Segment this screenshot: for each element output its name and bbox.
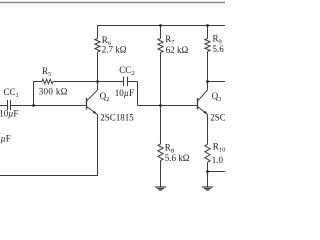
ground under R8 bbox=[155, 186, 166, 188]
ground under R10 bbox=[202, 186, 213, 188]
wire riser base node to R5 bbox=[33, 82, 35, 106]
wire bottom emitter return line bbox=[0, 175, 98, 177]
svg-text:300 kΩ: 300 kΩ bbox=[39, 87, 68, 97]
wire CC2 drop bbox=[137, 82, 139, 106]
svg-text:10µF: 10µF bbox=[0, 108, 18, 118]
junction node Q3 base bbox=[159, 104, 162, 107]
resistor R8 zigzag bbox=[158, 144, 163, 161]
svg-text:2SC1815: 2SC1815 bbox=[100, 113, 134, 123]
svg-text:62 kΩ: 62 kΩ bbox=[166, 45, 189, 55]
wire R10 bottom to ground bbox=[207, 162, 209, 187]
wire CC2 to Q3 base node bbox=[138, 105, 161, 107]
wire Q3 emitter diagonal bbox=[198, 107, 208, 115]
wire CC2 right lead bbox=[128, 81, 138, 83]
transistor Q2 base bar bbox=[86, 98, 88, 110]
wire R7 bottom to R8 top bbox=[160, 53, 162, 145]
wire Q2 collector diagonal bbox=[87, 90, 98, 101]
junction node R10 bottom bbox=[206, 170, 209, 173]
wire R8 bottom to ground bbox=[160, 161, 162, 188]
resistor R5 zigzag bbox=[42, 79, 53, 84]
wire Q3 collector diagonal bbox=[198, 90, 208, 101]
wire R6 bottom to Q2 collector node bbox=[97, 52, 99, 90]
wire R9 bottom to Q3 collector bbox=[207, 52, 209, 91]
wire Q2 emitter down bbox=[97, 115, 99, 176]
resistor R10 zigzag bbox=[205, 144, 210, 162]
junction node Q2 collector bbox=[96, 80, 99, 83]
arrow Q3 emitter bbox=[204, 111, 208, 114]
svg-text:10µF: 10µF bbox=[115, 88, 134, 98]
resistor R9 zigzag bbox=[205, 39, 210, 52]
svg-text:1.0 kΩ: 1.0 kΩ bbox=[212, 155, 225, 165]
arrow Q2 emitter bbox=[93, 111, 97, 114]
wire input left segment bbox=[0, 105, 8, 107]
wire Q3 emitter down to R10 bbox=[207, 115, 209, 145]
wire rail to R6 bbox=[97, 25, 99, 39]
junction node CC1-R5-base bbox=[32, 104, 35, 107]
wire output from Q3 collector node bbox=[208, 81, 226, 83]
wire Q3 base lead bbox=[161, 105, 198, 107]
junction node Q3 collector bbox=[206, 80, 209, 83]
transistor Q3 base bar bbox=[197, 98, 199, 110]
svg-text:µF: µF bbox=[1, 134, 11, 144]
svg-text:5.6 kΩ: 5.6 kΩ bbox=[213, 44, 226, 54]
wire VCC rail bbox=[98, 25, 226, 27]
wire collector node to CC2 bbox=[98, 81, 124, 83]
capacitor CC2 plates bbox=[123, 77, 125, 87]
svg-text:2SC1815: 2SC1815 bbox=[210, 113, 225, 123]
wire R5 left lead bbox=[33, 81, 42, 83]
capacitor CC1 plates bbox=[7, 100, 9, 110]
wire Q2 emitter diagonal bbox=[87, 107, 98, 115]
junction node rail-R9 bbox=[206, 24, 209, 27]
wire from R10 bottom node to right edge bbox=[208, 171, 226, 173]
wire rail to R9 bbox=[207, 26, 209, 39]
resistor R7 zigzag bbox=[158, 39, 163, 53]
top crop border line bbox=[0, 2, 225, 4]
junction node rail-R7 bbox=[159, 24, 162, 27]
wire R5 right lead to collector node bbox=[53, 81, 98, 83]
svg-text:2.7 kΩ: 2.7 kΩ bbox=[102, 45, 127, 55]
wire rail to R7 bbox=[160, 26, 162, 39]
svg-text:5.6 kΩ: 5.6 kΩ bbox=[165, 153, 190, 163]
resistor R6 zigzag bbox=[95, 39, 100, 53]
wire CC1 to Q2 base bbox=[11, 105, 87, 107]
